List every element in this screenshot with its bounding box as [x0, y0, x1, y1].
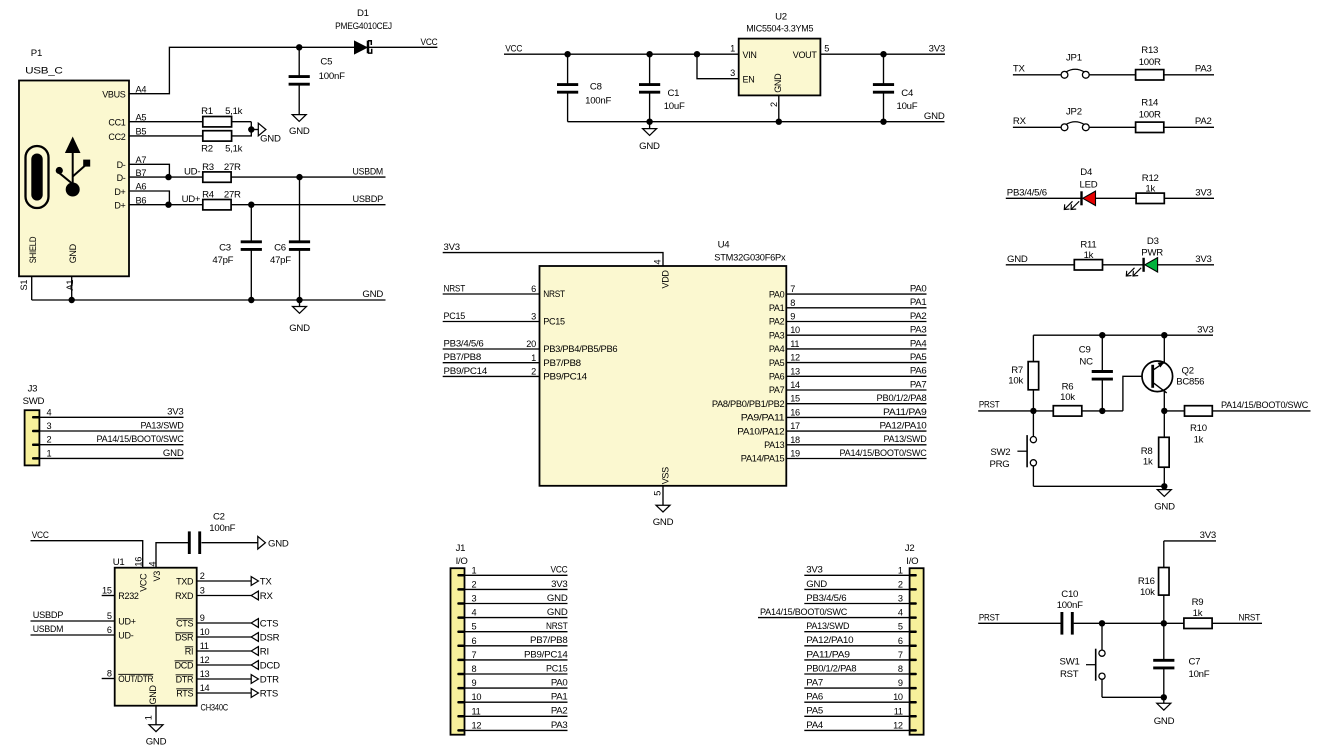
svg-text:4: 4	[472, 608, 477, 618]
svg-text:2: 2	[898, 579, 903, 589]
port in RI	[251, 646, 269, 657]
wire J2 pin 2	[804, 588, 909, 590]
svg-text:GND: GND	[268, 539, 289, 550]
wire R12 out	[1164, 197, 1214, 199]
svg-text:PA4: PA4	[806, 720, 824, 731]
wire TX	[1013, 74, 1062, 76]
svg-text:5: 5	[107, 611, 112, 621]
wire GND rail	[568, 121, 945, 123]
wire U2 GND pin	[778, 95, 780, 121]
svg-text:GND: GND	[289, 126, 310, 137]
svg-text:PC15: PC15	[543, 317, 565, 327]
wire U1 pin 9	[197, 622, 252, 624]
resistor R12	[1136, 173, 1164, 204]
wire U4 pin 11	[786, 348, 926, 350]
svg-text:47pF: 47pF	[212, 255, 233, 266]
resistor R10	[1185, 406, 1213, 446]
resistor R2	[201, 131, 243, 155]
svg-text:SWD: SWD	[23, 396, 45, 407]
ground	[1154, 486, 1175, 512]
svg-text:3: 3	[47, 421, 52, 431]
svg-text:R14: R14	[1141, 97, 1159, 108]
svg-text:UD+: UD+	[182, 194, 201, 205]
wire J2 pin 11	[804, 715, 909, 717]
svg-text:3V3: 3V3	[167, 407, 183, 418]
capacitor C9	[1079, 335, 1113, 411]
capacitor C2	[189, 511, 257, 554]
junction	[646, 51, 652, 57]
diode D1	[335, 8, 392, 55]
svg-text:R232: R232	[118, 591, 139, 601]
svg-text:GND: GND	[773, 73, 783, 93]
svg-text:UD-: UD-	[184, 166, 200, 177]
wire U4 pin 12	[786, 362, 926, 364]
wire J2 pin 6	[804, 645, 909, 647]
wire U4 pin 18	[786, 444, 926, 446]
wire J3 pin 2	[39, 444, 183, 446]
svg-text:8: 8	[898, 664, 903, 674]
svg-text:BC856: BC856	[1176, 376, 1204, 387]
svg-text:PA1: PA1	[551, 692, 568, 703]
svg-text:RTS: RTS	[260, 688, 278, 699]
svg-text:DCD: DCD	[175, 660, 194, 670]
svg-text:PC15: PC15	[546, 663, 568, 674]
switch SW2 PRG	[989, 435, 1036, 470]
svg-text:PB9/PC14: PB9/PC14	[543, 372, 587, 382]
svg-text:PA4: PA4	[910, 338, 928, 349]
svg-text:R2: R2	[201, 144, 213, 155]
resistor R7	[1008, 362, 1038, 390]
svg-text:PB7/PB8: PB7/PB8	[543, 358, 581, 368]
wire R7 bottom	[1032, 390, 1034, 411]
wire U1 pin 8	[102, 678, 115, 680]
port in DCD	[251, 660, 280, 671]
svg-text:PB7/PB8: PB7/PB8	[444, 352, 482, 363]
wire V3 to C2	[156, 543, 188, 568]
svg-text:D3: D3	[1147, 236, 1159, 247]
svg-text:B7: B7	[136, 168, 147, 178]
svg-text:6: 6	[472, 636, 477, 646]
wire J1 pin 8	[465, 673, 568, 675]
svg-text:PA3: PA3	[551, 720, 568, 731]
svg-text:PA13/SWD: PA13/SWD	[884, 434, 927, 445]
wire R10 out	[1212, 410, 1310, 412]
svg-text:PMEG4010CEJ: PMEG4010CEJ	[335, 21, 392, 32]
svg-text:GND: GND	[806, 579, 827, 590]
resistor R14	[1136, 97, 1164, 132]
svg-text:UD+: UD+	[118, 616, 135, 626]
wire R6 to base	[1082, 410, 1123, 412]
svg-text:JP2: JP2	[1066, 107, 1082, 118]
wire J1 pin 6	[465, 645, 568, 647]
wire U4 pin 13	[786, 375, 926, 377]
resistor R8	[1141, 437, 1169, 467]
svg-text:9: 9	[472, 678, 477, 688]
wire VBUS to VCC rail	[129, 47, 437, 93]
svg-text:MIC5504-3.3YM5: MIC5504-3.3YM5	[746, 23, 813, 34]
wire GND rail	[32, 299, 386, 301]
wire CC2	[129, 135, 203, 137]
svg-text:DSR: DSR	[260, 632, 280, 643]
wire U4 pin 14	[786, 389, 926, 391]
svg-text:12: 12	[790, 353, 800, 363]
resistor R1	[201, 106, 243, 127]
svg-text:I/O: I/O	[906, 556, 918, 567]
wire pin A1	[71, 276, 73, 300]
wire VOUT 3V3	[820, 53, 945, 55]
svg-text:GND: GND	[1154, 716, 1175, 727]
svg-text:PA14/15/BOOT0/SWC: PA14/15/BOOT0/SWC	[97, 434, 184, 445]
svg-text:P1: P1	[31, 48, 42, 59]
wire J1 pin 10	[465, 701, 568, 703]
svg-text:PA13/SWD: PA13/SWD	[806, 621, 849, 632]
wire Q2 collector	[1163, 390, 1165, 411]
svg-text:11: 11	[472, 706, 481, 716]
svg-text:GND: GND	[289, 323, 310, 334]
junction	[880, 119, 886, 125]
svg-text:PA14/15/BOOT0/SWC: PA14/15/BOOT0/SWC	[760, 607, 847, 618]
svg-text:100nF: 100nF	[585, 96, 611, 107]
svg-text:1k: 1k	[1145, 184, 1155, 195]
svg-text:SW1: SW1	[1060, 656, 1080, 667]
svg-text:NC: NC	[1079, 356, 1093, 367]
svg-text:9: 9	[898, 678, 903, 688]
svg-text:PA2: PA2	[910, 311, 927, 322]
svg-text:GND: GND	[1007, 254, 1028, 265]
svg-text:USBDP: USBDP	[33, 610, 64, 621]
wire USBDM	[31, 634, 115, 636]
svg-text:10: 10	[200, 627, 210, 637]
svg-text:5,1k: 5,1k	[225, 106, 243, 117]
svg-text:J3: J3	[28, 383, 38, 394]
svg-text:2: 2	[769, 102, 779, 107]
svg-text:C4: C4	[901, 88, 914, 99]
svg-text:PB0/1/2/PA8: PB0/1/2/PA8	[877, 393, 927, 404]
resistor R4	[202, 190, 241, 210]
svg-text:GND: GND	[148, 685, 158, 705]
svg-text:PRST: PRST	[979, 400, 1000, 411]
svg-text:1k: 1k	[1194, 434, 1204, 445]
svg-text:14: 14	[790, 380, 800, 390]
svg-text:USB_C: USB_C	[25, 65, 63, 76]
port out RTS	[251, 688, 278, 699]
connector P1 USB_C	[19, 48, 129, 276]
svg-text:10k: 10k	[1008, 376, 1023, 387]
svg-text:A4: A4	[136, 84, 147, 94]
svg-text:PC15: PC15	[444, 311, 466, 322]
svg-text:R6: R6	[1062, 382, 1074, 393]
svg-text:PA2: PA2	[1195, 116, 1212, 127]
svg-text:DCD: DCD	[260, 660, 280, 671]
wire J1 pin 11	[465, 715, 568, 717]
svg-text:2: 2	[531, 367, 536, 377]
svg-text:CC2: CC2	[108, 132, 125, 142]
svg-text:D+: D+	[114, 201, 125, 211]
svg-text:27R: 27R	[224, 162, 241, 173]
wire PB3/4/5/6 to D4	[1006, 197, 1082, 199]
wire J1 pin 4	[465, 617, 568, 619]
svg-text:3V3: 3V3	[1195, 187, 1211, 198]
svg-text:PA1: PA1	[910, 297, 927, 308]
wire J1 pin 12	[465, 729, 568, 731]
svg-text:6: 6	[531, 284, 536, 294]
svg-text:R8: R8	[1141, 446, 1153, 457]
svg-text:DSR: DSR	[175, 632, 194, 642]
svg-text:PA14/PA15: PA14/PA15	[741, 454, 785, 464]
svg-text:6: 6	[898, 636, 903, 646]
junction	[646, 119, 652, 125]
svg-text:PA0: PA0	[910, 284, 927, 295]
junction	[296, 44, 302, 50]
svg-text:TX: TX	[1013, 63, 1026, 74]
svg-text:U2: U2	[775, 11, 787, 22]
svg-text:USBDM: USBDM	[353, 166, 384, 177]
wire R13 out	[1164, 74, 1214, 76]
wire SW1 top	[1101, 623, 1103, 650]
wire D4 to R12	[1096, 197, 1136, 199]
svg-text:PA1: PA1	[769, 303, 785, 313]
wire 3V3 to VDD	[443, 253, 663, 266]
jumper JP2	[1061, 107, 1089, 131]
wire USBDP	[231, 204, 385, 206]
svg-text:PB0/1/2/PA8: PB0/1/2/PA8	[806, 663, 856, 674]
led D4 LED	[1064, 167, 1097, 209]
svg-text:PA14/15/BOOT0/SWC: PA14/15/BOOT0/SWC	[1221, 400, 1308, 411]
capacitor C7	[1153, 623, 1210, 697]
connector J3 SWD	[23, 383, 52, 465]
svg-text:1: 1	[898, 565, 903, 575]
wire J2 pin 3	[804, 603, 909, 605]
svg-text:LED: LED	[1080, 179, 1098, 190]
wire U4 pin 16	[786, 416, 926, 418]
svg-text:VDD: VDD	[660, 270, 670, 289]
svg-text:16: 16	[790, 407, 800, 417]
capacitor C3	[212, 205, 261, 300]
svg-text:GND: GND	[362, 289, 383, 300]
wire PRST	[978, 410, 1053, 412]
wire R8 bottom	[1163, 467, 1165, 486]
junction	[1099, 332, 1105, 338]
svg-text:R10: R10	[1190, 423, 1207, 434]
junction	[296, 297, 302, 303]
wire U4 VSS	[662, 486, 664, 505]
svg-text:RXD: RXD	[175, 591, 194, 601]
svg-text:DTR: DTR	[260, 674, 279, 685]
wire J1 pin 1	[465, 574, 568, 576]
svg-text:GND: GND	[653, 517, 674, 528]
svg-text:GND: GND	[639, 141, 660, 152]
svg-text:10: 10	[893, 692, 903, 702]
wire J3 pin 1	[39, 457, 183, 459]
svg-text:SW2: SW2	[990, 447, 1010, 458]
svg-text:11: 11	[790, 339, 799, 349]
svg-text:100R: 100R	[1139, 109, 1161, 120]
svg-text:16: 16	[133, 557, 143, 567]
svg-text:D-: D-	[117, 160, 126, 170]
resistor R13	[1136, 45, 1164, 80]
ground	[653, 505, 674, 528]
svg-text:PA14/15/BOOT0/SWC: PA14/15/BOOT0/SWC	[840, 448, 927, 459]
svg-text:4: 4	[47, 407, 52, 417]
capacitor C6	[270, 177, 310, 300]
svg-text:VSS: VSS	[660, 467, 670, 484]
wire U1 pin 2	[197, 580, 252, 582]
svg-text:PA7: PA7	[769, 385, 785, 395]
wire J3 pin 4	[39, 416, 183, 418]
wire JP2 to R14	[1089, 126, 1136, 128]
jumper JP1	[1061, 52, 1089, 78]
capacitor C8	[557, 54, 611, 122]
wire SW1 bottom	[1101, 679, 1103, 697]
svg-text:PA2: PA2	[769, 317, 785, 327]
resistor R6	[1053, 382, 1082, 417]
svg-text:GND: GND	[260, 134, 281, 145]
svg-text:V3: V3	[152, 571, 162, 582]
USB icon	[26, 137, 91, 209]
wire PRST to C10	[978, 622, 1060, 624]
resistor R3	[202, 162, 241, 182]
svg-text:R3: R3	[202, 162, 214, 173]
svg-text:C7: C7	[1189, 656, 1201, 667]
wire U4 pin 19	[786, 458, 926, 460]
svg-text:PA11/PA9: PA11/PA9	[883, 407, 927, 418]
svg-text:3: 3	[898, 594, 903, 604]
wire J2 pin 8	[804, 673, 909, 675]
svg-text:5: 5	[652, 491, 662, 496]
svg-text:3V3: 3V3	[806, 565, 822, 576]
ground	[146, 725, 167, 748]
wire U1 pin 13	[197, 678, 252, 680]
svg-text:6: 6	[107, 625, 112, 635]
svg-text:A7: A7	[136, 155, 147, 165]
svg-text:GND: GND	[163, 448, 184, 459]
wire U1 pin 3	[197, 595, 252, 597]
wire D- B7	[129, 176, 203, 178]
junction	[69, 297, 75, 303]
svg-text:PA3: PA3	[910, 325, 927, 336]
wire VCC to VIN	[504, 53, 739, 55]
svg-text:PA12/PA10: PA12/PA10	[806, 635, 853, 646]
svg-text:C3: C3	[219, 242, 231, 253]
wire U1 pin 10	[197, 636, 252, 638]
svg-text:D-: D-	[117, 173, 126, 183]
wire D- A7	[129, 164, 169, 177]
svg-text:PB3/PB4/PB5/PB6: PB3/PB4/PB5/PB6	[543, 344, 617, 354]
svg-text:3V3: 3V3	[1197, 324, 1213, 335]
svg-text:12: 12	[472, 720, 482, 730]
svg-text:47pF: 47pF	[270, 255, 291, 266]
svg-text:3: 3	[472, 594, 477, 604]
svg-text:4: 4	[148, 562, 158, 567]
svg-text:PA5: PA5	[806, 706, 823, 717]
junction	[564, 51, 570, 57]
svg-text:PA5: PA5	[910, 352, 927, 363]
svg-text:A5: A5	[136, 112, 147, 122]
junction	[1161, 408, 1167, 414]
wire base corner	[1123, 376, 1152, 411]
junction	[1099, 408, 1105, 414]
wire U4 pin 10	[786, 334, 926, 336]
svg-text:EN: EN	[743, 75, 755, 85]
junction	[776, 119, 782, 125]
svg-text:PB7/PB8: PB7/PB8	[530, 635, 568, 646]
wire U1 pin 15	[102, 595, 115, 597]
wire J1 pin 5	[465, 631, 568, 633]
wire GND rail	[1102, 696, 1164, 698]
junction	[165, 202, 171, 208]
svg-text:R16: R16	[1138, 576, 1155, 587]
wire J2 pin 10	[804, 701, 909, 703]
svg-text:PB9/PC14: PB9/PC14	[524, 649, 568, 660]
svg-text:PA11/PA9: PA11/PA9	[806, 649, 850, 660]
svg-text:GND: GND	[146, 737, 167, 748]
svg-text:VOUT: VOUT	[793, 50, 818, 60]
led D3 PWR	[1126, 236, 1163, 276]
svg-text:RI: RI	[185, 646, 193, 656]
svg-text:S1: S1	[19, 280, 29, 291]
svg-text:TX: TX	[260, 576, 273, 587]
capacitor C4	[873, 54, 918, 122]
svg-text:PB3/4/5/6: PB3/4/5/6	[806, 593, 846, 604]
wire U4 pin 15	[786, 403, 926, 405]
junction	[248, 126, 254, 132]
svg-text:10: 10	[790, 325, 800, 335]
junction	[165, 174, 171, 180]
wire GND rail	[1033, 485, 1164, 487]
wire USBDM	[231, 176, 385, 178]
svg-text:PA2: PA2	[551, 706, 568, 717]
svg-text:CC1: CC1	[108, 118, 125, 128]
svg-text:3V3: 3V3	[929, 43, 945, 54]
port out TX	[251, 576, 272, 587]
svg-text:GND: GND	[924, 111, 945, 122]
svg-text:TXD: TXD	[176, 576, 194, 586]
wire 3V3 rail	[1033, 334, 1213, 336]
svg-text:USBDP: USBDP	[353, 194, 384, 205]
svg-text:R1: R1	[201, 106, 213, 117]
svg-text:J2: J2	[905, 543, 915, 554]
svg-text:D1: D1	[357, 8, 369, 19]
svg-text:17: 17	[790, 421, 800, 431]
svg-text:15: 15	[102, 585, 112, 595]
connector J2 I/O	[893, 543, 924, 735]
wire R11 to D3	[1103, 264, 1144, 266]
junction	[694, 51, 700, 57]
wire U1 pin 12	[197, 664, 252, 666]
mcu U4 STM32G030F6Px	[526, 240, 800, 496]
svg-text:PB9/PC14: PB9/PC14	[444, 366, 488, 377]
svg-text:12: 12	[200, 655, 210, 665]
wire U4 pin 1	[443, 362, 540, 364]
svg-text:100R: 100R	[1139, 57, 1161, 68]
svg-text:VCC: VCC	[32, 530, 49, 541]
svg-text:13: 13	[200, 669, 210, 679]
svg-text:VCC: VCC	[138, 573, 148, 592]
svg-text:PRST: PRST	[979, 612, 1000, 623]
svg-text:1k: 1k	[1193, 608, 1203, 619]
switch SW1 RST	[1060, 649, 1106, 681]
svg-text:A6: A6	[136, 182, 147, 192]
svg-text:D+: D+	[114, 187, 125, 197]
wire U4 pin 9	[786, 321, 926, 323]
svg-text:VBUS: VBUS	[102, 90, 126, 100]
svg-text:C9: C9	[1079, 345, 1091, 356]
resistor R16	[1138, 568, 1169, 598]
wire U4 pin 20	[443, 348, 540, 350]
svg-text:C6: C6	[274, 242, 286, 253]
svg-text:2: 2	[200, 571, 205, 581]
svg-text:10uF: 10uF	[897, 101, 918, 112]
